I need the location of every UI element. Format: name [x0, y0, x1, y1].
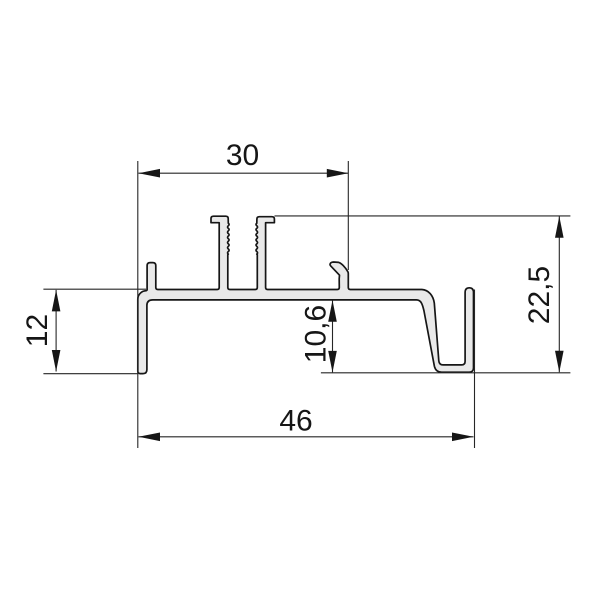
arrow 30 left [139, 169, 161, 178]
svg-text:12: 12 [21, 314, 54, 347]
dimension extension line left (x=137.8, shared by 30 and 46) [137, 161, 139, 448]
svg-text:46: 46 [279, 405, 312, 438]
aluminium profile cross-section outline [138, 216, 474, 373]
arrow 46 right [452, 433, 474, 442]
extension line bottom shared by 22,5 and 10,6 (y=372.8) [321, 372, 571, 374]
extension line top of 12 (y=289.2) [43, 288, 146, 290]
svg-text:30: 30 [226, 139, 259, 172]
dimension line 12 [55, 290, 57, 372]
extension line bottom of 12 (y=373.7) [43, 373, 138, 375]
arrow 22,5 bottom [555, 351, 564, 373]
arrow 46 left [139, 433, 161, 442]
dimension line 30 [139, 172, 349, 174]
arrow 10,6 bottom [328, 351, 337, 373]
extension line top of 22,5 (y=215.9) [275, 215, 571, 217]
svg-text:10,6: 10,6 [299, 305, 332, 363]
arrow 12 bottom [52, 350, 61, 372]
dimension line 22,5 [558, 216, 560, 372]
arrow 10,6 top [328, 300, 337, 322]
svg-text:22,5: 22,5 [523, 266, 556, 324]
dimension line 10,6 [332, 300, 334, 372]
arrow 30 right [327, 169, 349, 178]
arrow 22,5 top [555, 216, 564, 238]
dimension extension line right of 30 (x=348.3) [347, 161, 349, 270]
arrow 12 top [52, 290, 61, 312]
dimension extension line right of 46 (x=474.5) [474, 290, 476, 449]
dimension line 46 [139, 436, 474, 438]
